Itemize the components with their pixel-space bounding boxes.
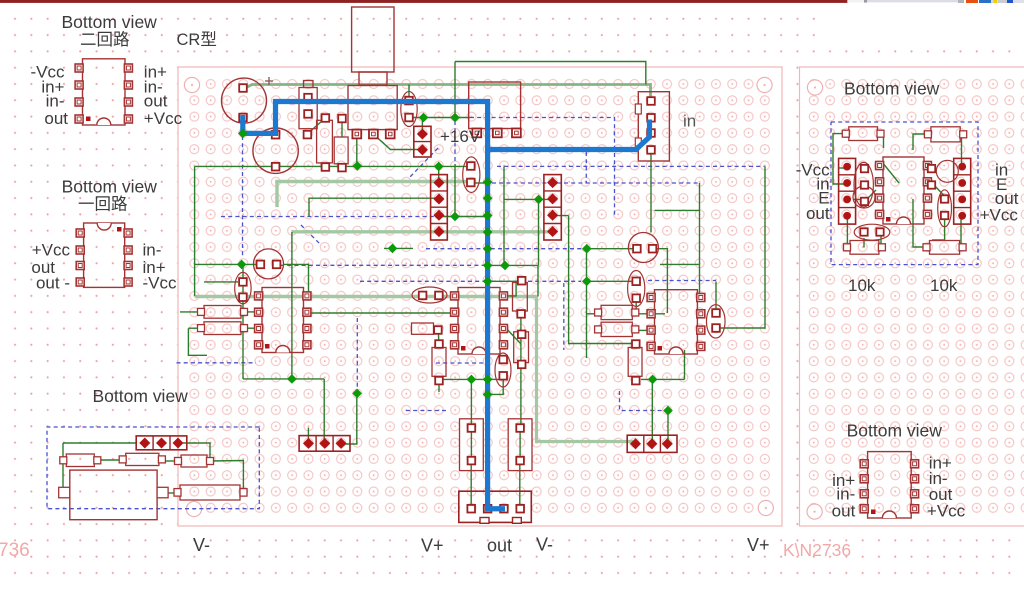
svg-text:in: in [683,112,696,131]
svg-text:+Vcc: +Vcc [927,502,966,521]
svg-text:V-: V- [193,535,210,555]
svg-text:out: out [806,204,830,223]
svg-text:10k: 10k [848,276,876,295]
svg-text:+Vcc: +Vcc [144,109,183,128]
svg-text:二回路: 二回路 [80,30,130,49]
svg-text:K\N2736: K\N2736 [783,540,851,560]
svg-text:out -: out - [36,274,70,293]
svg-text:一回路: 一回路 [78,195,128,214]
svg-text:10k: 10k [930,276,958,295]
svg-text:CR型: CR型 [177,30,217,49]
svg-text:Bottom view: Bottom view [62,177,158,197]
svg-text:Bottom view: Bottom view [93,386,189,406]
svg-text:+Vcc: +Vcc [32,241,71,260]
svg-text:Bottom view: Bottom view [62,12,158,32]
svg-text:+Vcc: +Vcc [980,206,1019,225]
svg-text:in-: in- [143,241,162,260]
svg-text:in-: in- [46,91,65,110]
svg-text:+16V: +16V [440,127,481,146]
svg-text:out: out [44,109,68,128]
svg-text:V+: V+ [421,536,444,556]
svg-text:out: out [144,91,168,110]
svg-text:V-: V- [536,535,553,555]
svg-text:V+: V+ [747,535,770,555]
svg-text:736: 736 [0,540,30,561]
svg-text:out: out [832,502,856,521]
svg-text:-Vcc: -Vcc [143,274,178,293]
svg-text:out: out [487,536,512,556]
svg-text:Bottom view: Bottom view [847,421,943,441]
svg-text:Bottom view: Bottom view [844,79,940,99]
